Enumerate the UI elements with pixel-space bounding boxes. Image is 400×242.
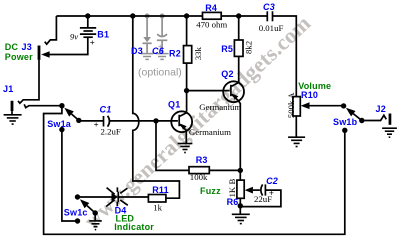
svg-text:R10: R10 [301,90,318,100]
svg-text:Germanium: Germanium [189,127,231,137]
svg-text:Germanium: Germanium [199,102,241,112]
svg-text:J2: J2 [376,104,386,114]
svg-text:R3: R3 [196,155,208,165]
svg-text:9v: 9v [70,31,78,41]
svg-text:+: + [94,119,99,129]
svg-text:Sw1a: Sw1a [47,119,72,129]
svg-text:C1: C1 [100,104,112,114]
svg-text:33k: 33k [193,47,203,61]
svg-text:C3: C3 [263,2,275,12]
svg-text:J1: J1 [3,84,13,94]
svg-text:B1: B1 [97,30,109,40]
svg-text:R5: R5 [221,44,233,54]
svg-text:Power: Power [5,52,33,62]
svg-text:(optional): (optional) [138,67,182,79]
svg-text:470 ohm: 470 ohm [196,19,227,29]
svg-text:0.01uF: 0.01uF [259,23,284,33]
svg-text:2.2uF: 2.2uF [101,127,121,137]
svg-text:Sw1b: Sw1b [333,117,358,127]
svg-text:Indicator: Indicator [114,222,154,232]
svg-text:D3: D3 [131,46,143,56]
svg-text:Sw1c: Sw1c [64,207,88,217]
svg-text:R2: R2 [169,48,181,58]
svg-text:100k: 100k [190,172,208,182]
svg-text:+: + [269,188,274,198]
svg-text:Q1: Q1 [168,99,180,109]
svg-text:J3: J3 [22,42,32,52]
svg-text:1K B: 1K B [227,179,237,198]
svg-text:C2: C2 [266,176,278,186]
svg-text:8k2: 8k2 [244,41,254,54]
svg-text:R11: R11 [152,185,169,195]
svg-text:500k A: 500k A [286,92,296,118]
svg-text:Q2: Q2 [221,69,233,79]
svg-text:1k: 1k [153,202,162,212]
svg-text:+: + [90,37,95,47]
svg-text:Fuzz: Fuzz [200,186,221,196]
svg-text:R4: R4 [205,3,217,13]
svg-text:C6: C6 [152,46,165,56]
svg-text:DC: DC [5,42,19,52]
